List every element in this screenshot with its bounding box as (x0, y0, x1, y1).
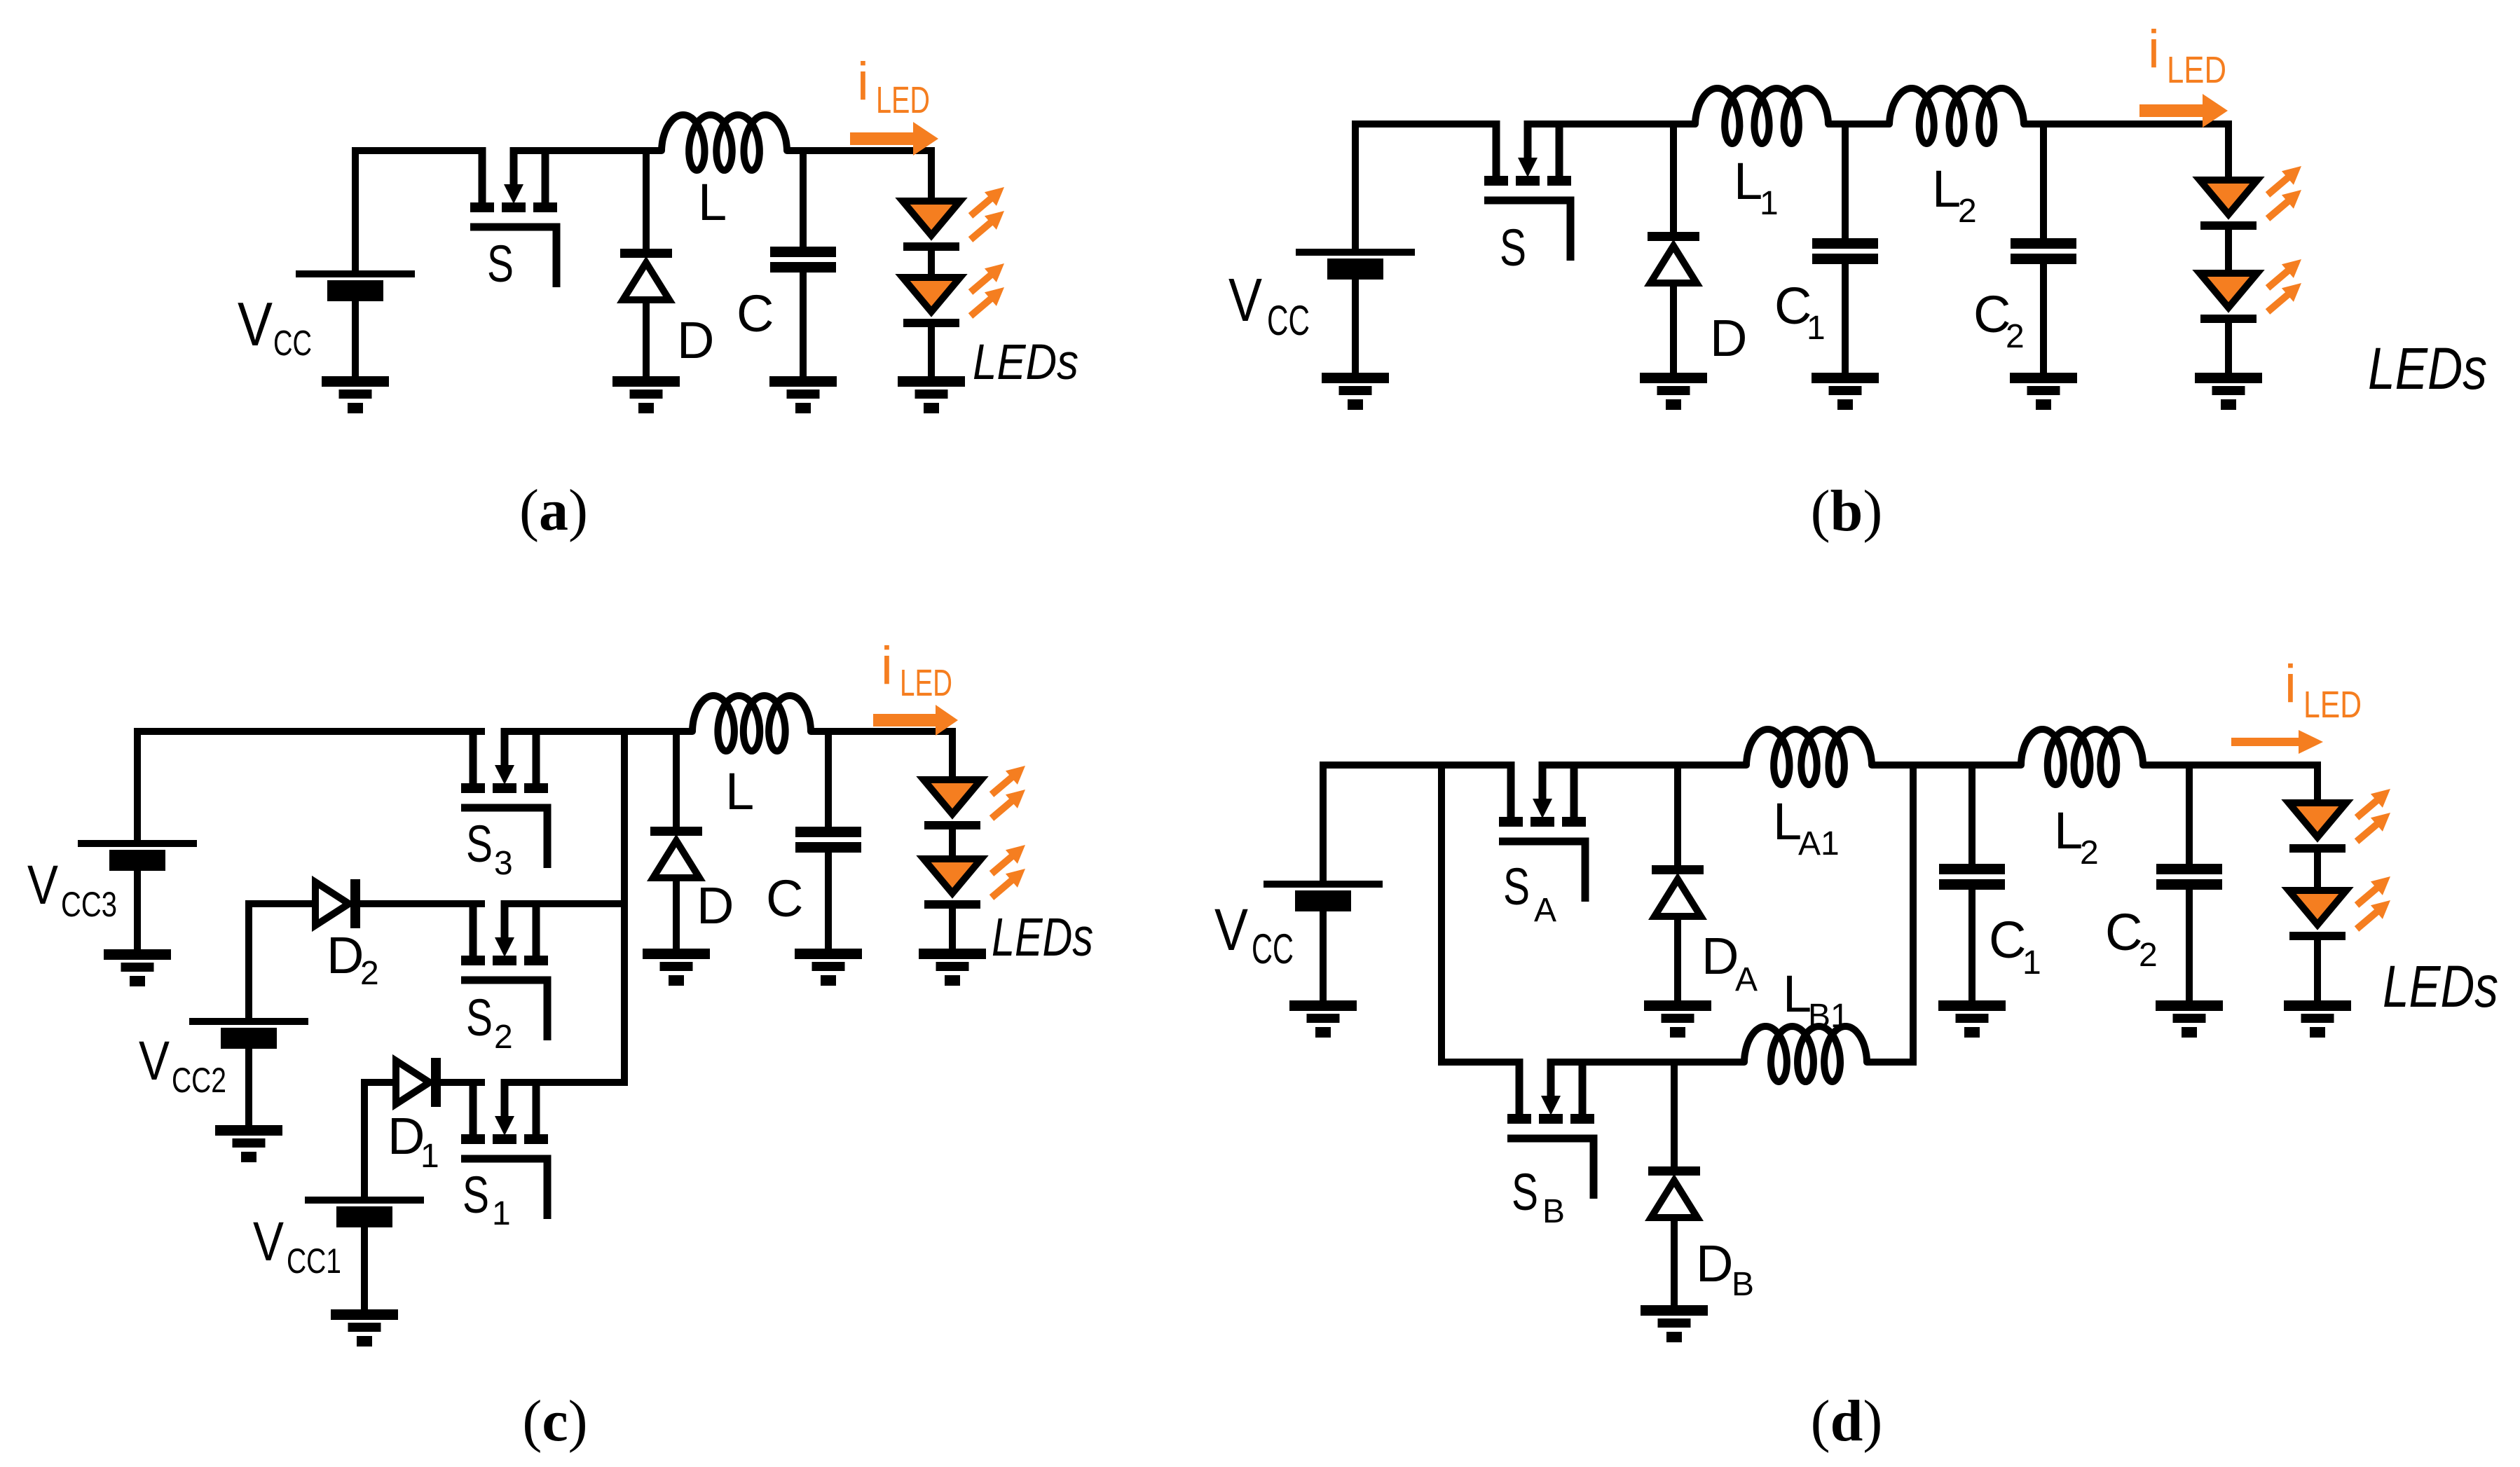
wire to LED string (panel b) (2225, 120, 2232, 180)
light rays of LED D2 (panel d) (2357, 876, 2390, 929)
current arrow iLED (panel a) (850, 122, 938, 156)
current arrow iLED (panel c) (873, 705, 958, 736)
label iLED (panel a) (857, 52, 930, 121)
wire inductor to LEDs (panel a) (787, 147, 935, 154)
ground (battery, panel b) (1322, 373, 1389, 410)
label LB1 (panel d) (1783, 965, 1849, 1035)
diode D (panel c) (650, 827, 702, 878)
label SA (panel d) (1503, 858, 1556, 929)
svg-text:B: B (1542, 1193, 1565, 1230)
svg-text:(b): (b) (1811, 478, 1883, 544)
label LA1 (panel d) (1773, 792, 1840, 862)
wire LA1 to L2 (panel d) (1872, 762, 2021, 769)
svg-text:C: C (2105, 903, 2142, 961)
wire battery negative to ground (panel a) (352, 301, 359, 380)
wire diode DB branch (panel d) (1671, 1062, 1678, 1168)
svg-text:V: V (1214, 897, 1248, 963)
svg-text:D: D (697, 876, 734, 935)
svg-text:2: 2 (360, 955, 379, 992)
svg-text:LEDs: LEDs (2383, 953, 2498, 1019)
label D1 (panel c) (388, 1107, 439, 1175)
label VCC1 (panel c) (253, 1210, 341, 1281)
light rays of LED D2 (panel c) (992, 845, 1025, 897)
LED D2 of string (panel d) (2289, 890, 2346, 940)
svg-text:LEDs: LEDs (2368, 336, 2487, 401)
wire C2 to ground (panel b) (2040, 263, 2047, 376)
svg-text:S: S (1512, 1163, 1538, 1221)
wire switch to inductor L1 (panel b) (1524, 120, 1695, 128)
wire D to ground (panel c) (673, 877, 680, 952)
svg-text:2: 2 (2139, 937, 2158, 974)
label D2 (panel c) (327, 926, 379, 992)
wire VCC to switch S (panel a) (355, 151, 485, 274)
label D (panel c) (697, 876, 734, 935)
wire to LED string (panel c) (949, 728, 956, 780)
diode DB (panel d) (1648, 1166, 1700, 1218)
wire VCC to rail (panel d) (1323, 765, 1514, 884)
svg-text:S: S (1500, 219, 1526, 277)
wire inductor to LEDs (panel c) (811, 728, 956, 735)
wire VCC1 negative to ground (panel c) (361, 1227, 368, 1313)
LED D1 of string (panel d) (2289, 803, 2346, 853)
LED D2 of string (panel a) (903, 277, 960, 327)
wire VCC2 to D2 anode (panel c) (249, 904, 317, 1021)
capacitor C1 (panel d) (1939, 864, 2005, 890)
ground (capacitor C1, panel b) (1812, 373, 1879, 410)
wire between LEDs (panel b) (2225, 228, 2232, 273)
ground (LED string, panel d) (2284, 1000, 2351, 1038)
svg-text:(d): (d) (1811, 1389, 1883, 1454)
svg-text:2: 2 (494, 1019, 513, 1056)
label S (panel a) (487, 235, 514, 293)
diode DA (panel d) (1652, 865, 1704, 916)
diode D (panel a) (620, 249, 672, 300)
svg-text:V: V (139, 1029, 170, 1091)
svg-text:LED: LED (876, 79, 930, 121)
label S1 (panel c) (463, 1166, 511, 1232)
ground (battery VCC3, panel c) (104, 949, 171, 986)
transistor SA (panel d) (1499, 762, 1586, 902)
wire LED string to ground (panel d) (2314, 938, 2321, 1004)
LED D2 of string (panel c) (924, 859, 981, 909)
wire VCC1 to D1 anode (panel c) (364, 1082, 397, 1200)
label C (panel c) (766, 869, 803, 928)
svg-text:3: 3 (494, 845, 513, 882)
inductor L (panel a) (662, 115, 787, 170)
svg-text:1: 1 (2022, 944, 2041, 982)
svg-text:2: 2 (2080, 834, 2099, 872)
wire between LEDs (panel d) (2314, 850, 2321, 890)
svg-text:L: L (2054, 801, 2083, 860)
svg-text:CC2: CC2 (172, 1061, 226, 1100)
wire SA source to LA1 (panel d) (1539, 762, 1746, 769)
transistor S (panel a) (470, 147, 557, 287)
battery VCC (panel a) (296, 270, 415, 301)
wire capacitor C branch (panel c) (825, 731, 832, 828)
svg-text:S: S (463, 1166, 489, 1224)
label iLED (panel d) (2285, 654, 2362, 726)
light rays of LED D1 (panel a) (971, 187, 1004, 240)
light rays of LED D2 (panel a) (971, 263, 1004, 316)
svg-text:LEDs: LEDs (973, 335, 1078, 390)
ground (LED string, panel a) (898, 376, 965, 413)
current arrow iLED (panel b) (2139, 94, 2228, 128)
svg-text:CC1: CC1 (287, 1241, 341, 1281)
LED D1 of string (panel b) (2200, 180, 2257, 230)
wire diode D branch (panel c) (673, 731, 680, 828)
transistor S2 (panel c) (461, 900, 548, 1040)
wire C to ground (panel c) (825, 851, 832, 952)
caption (d) (1811, 1389, 1883, 1454)
svg-text:2: 2 (1958, 193, 1977, 230)
svg-text:CC: CC (273, 323, 312, 363)
light rays of LED D1 (panel c) (992, 766, 1025, 818)
diode D2 (panel c) (315, 879, 360, 928)
inductor L1 (panel b) (1695, 88, 1828, 144)
wire C1 to ground (panel b) (1842, 263, 1849, 376)
svg-text:1: 1 (1760, 185, 1779, 222)
inductor L (panel c) (692, 696, 811, 751)
label DA (panel d) (1701, 927, 1758, 998)
ground (diode DB, panel d) (1641, 1305, 1708, 1342)
transistor SB (panel d) (1507, 1059, 1594, 1199)
label C2 (panel d) (2105, 903, 2158, 974)
capacitor C2 (panel b) (2011, 238, 2076, 264)
label L2 (panel b) (1932, 160, 1977, 230)
wire D2 cathode to S2 (panel c) (360, 900, 485, 907)
svg-text:L: L (1932, 160, 1961, 218)
capacitor C1 (panel b) (1812, 238, 1878, 264)
wire LED string to ground (panel b) (2225, 321, 2232, 376)
svg-text:i: i (881, 636, 893, 696)
ground (battery VCC2, panel c) (215, 1125, 282, 1162)
wire DB to ground (panel d) (1671, 1217, 1678, 1309)
wire capacitor to ground (panel a) (800, 271, 807, 380)
wire VCC3 to top bus (panel c) (137, 731, 485, 843)
wire L2 to LEDs (panel d) (2143, 762, 2321, 769)
inductor LA1 (panel d) (1746, 729, 1872, 785)
label D (panel b) (1710, 309, 1747, 367)
label VCC3 (panel c) (27, 853, 117, 924)
svg-text:B1: B1 (1808, 998, 1849, 1035)
ground (battery, panel d) (1289, 1000, 1357, 1038)
bus node to S1/S2 sources (panel c) (621, 728, 628, 1086)
label iLED (panel b) (2148, 20, 2226, 91)
capacitor C2 (panel d) (2156, 864, 2222, 890)
wire VCC3 negative to ground (panel c) (134, 871, 141, 953)
label C2 (panel b) (1973, 285, 2025, 355)
svg-text:(a): (a) (519, 478, 588, 543)
ground (battery VCC1, panel c) (331, 1309, 398, 1347)
svg-text:D: D (388, 1107, 425, 1165)
wire LB1 to link (panel d) (1867, 1059, 1917, 1066)
wire between LEDs (panel c) (949, 827, 956, 859)
capacitor C (panel a) (770, 247, 836, 273)
inductor L2 (panel d) (2021, 729, 2143, 785)
ground (diode D, panel c) (643, 949, 710, 986)
wire diode D branch (panel b) (1670, 124, 1677, 233)
svg-text:1: 1 (492, 1195, 511, 1232)
wire capacitor C1 branch (panel d) (1968, 765, 1975, 865)
svg-text:LED: LED (900, 662, 952, 704)
caption (a) (519, 478, 588, 543)
ground (diode D, panel b) (1640, 373, 1707, 410)
ground (LED string, panel b) (2195, 373, 2262, 410)
wire link verticals (panel d) (1910, 762, 1917, 1062)
wire capacitor C2 branch (panel d) (2186, 765, 2193, 865)
wire S2 source to bus (panel c) (501, 900, 628, 907)
svg-text:D: D (1701, 927, 1739, 985)
svg-text:LEDs: LEDs (992, 907, 1093, 967)
svg-text:C: C (766, 869, 803, 928)
ground (battery, panel a) (322, 376, 389, 413)
wire SB source to LB1 (panel d) (1547, 1059, 1744, 1066)
battery VCC3 (panel c) (78, 840, 197, 871)
ground (capacitor C1, panel d) (1938, 1000, 2006, 1038)
label C1 (panel b) (1774, 277, 1826, 347)
ground (capacitor C, panel c) (795, 949, 862, 986)
wire diode DA branch (panel d) (1674, 765, 1681, 867)
svg-text:C: C (1989, 911, 2026, 969)
svg-text:V: V (238, 289, 273, 359)
svg-text:L: L (1734, 152, 1762, 210)
svg-text:S: S (466, 989, 493, 1047)
wire battery negative to ground (panel b) (1352, 280, 1359, 376)
wire to LED string (panel d) (2314, 762, 2321, 803)
label VCC (panel d) (1214, 897, 1294, 972)
label DB (panel d) (1696, 1234, 1754, 1303)
label L1 (panel b) (1734, 152, 1779, 222)
svg-text:L: L (725, 762, 754, 820)
label iLED (panel c) (881, 636, 952, 704)
wire diode D branch (panel a) (643, 151, 650, 250)
wire LED string to ground (panel c) (949, 907, 956, 952)
wire between LEDs (panel a) (928, 249, 935, 277)
svg-text:D: D (677, 311, 714, 369)
svg-text:B: B (1732, 1266, 1754, 1303)
diode D1 (panel c) (396, 1058, 441, 1107)
svg-text:D: D (1710, 309, 1747, 367)
svg-text:L: L (1783, 965, 1812, 1023)
label L (panel c) (725, 762, 754, 820)
svg-text:CC: CC (1267, 297, 1310, 344)
inductor LB1 (panel d) (1744, 1026, 1867, 1082)
wire D1 cathode to S1 (panel c) (441, 1079, 485, 1086)
caption (c) (522, 1389, 587, 1454)
svg-text:2: 2 (2006, 318, 2025, 355)
battery VCC (panel b) (1296, 249, 1415, 280)
label VCC (panel a) (238, 289, 312, 363)
ground (LED string, panel c) (919, 949, 986, 986)
svg-text:i: i (857, 52, 869, 111)
svg-text:S: S (466, 815, 493, 873)
svg-text:A: A (1534, 892, 1556, 929)
wire phase B drop (panel d) (1442, 765, 1516, 1062)
svg-text:1: 1 (420, 1138, 439, 1175)
wire LED string to ground (panel a) (928, 325, 935, 380)
svg-text:i: i (2148, 20, 2160, 79)
light rays of LED D1 (panel d) (2357, 789, 2390, 841)
label L (panel a) (698, 173, 727, 231)
label LEDs (panel c) (992, 907, 1093, 967)
wire battery negative to ground (panel d) (1320, 911, 1327, 1004)
LED D1 of string (panel a) (903, 201, 960, 251)
wire C1 to ground (panel d) (1968, 888, 1975, 1004)
svg-text:CC: CC (1252, 925, 1294, 972)
svg-text:V: V (1228, 266, 1262, 334)
wire L1 to L2 (panel b) (1828, 120, 1889, 128)
svg-text:D: D (327, 926, 364, 984)
capacitor C (panel c) (795, 827, 861, 853)
wire capacitor C branch (panel a) (800, 151, 807, 248)
svg-text:C: C (737, 284, 774, 343)
caption (b) (1811, 478, 1883, 544)
label S (panel b) (1500, 219, 1526, 277)
label LEDs (panel d) (2383, 953, 2498, 1019)
svg-text:(c): (c) (522, 1389, 587, 1454)
svg-text:LED: LED (2303, 684, 2362, 726)
diode D (panel b) (1648, 232, 1699, 283)
ground (diode DA, panel d) (1644, 1000, 1711, 1038)
svg-text:D: D (1696, 1234, 1733, 1293)
wire switch to inductor (panel a) (510, 147, 662, 154)
transistor S1 (panel c) (461, 1079, 548, 1219)
label L2 (panel d) (2054, 801, 2099, 872)
wire capacitor C1 branch (panel b) (1842, 124, 1849, 240)
battery VCC (panel d) (1264, 881, 1383, 911)
svg-text:CC3: CC3 (61, 885, 117, 924)
label C (panel a) (737, 284, 774, 343)
light rays of LED D1 (panel b) (2268, 166, 2301, 219)
svg-text:A1: A1 (1798, 825, 1840, 862)
current arrow iLED (panel d) (2231, 730, 2323, 754)
label S2 (panel c) (466, 989, 513, 1056)
light rays of LED D2 (panel b) (2268, 259, 2301, 312)
svg-text:A: A (1735, 961, 1758, 998)
LED D1 of string (panel c) (924, 780, 981, 829)
wire to LED string (panel a) (928, 147, 935, 201)
wire VCC2 negative to ground (panel c) (245, 1049, 252, 1129)
label S3 (panel c) (466, 815, 513, 882)
svg-text:V: V (253, 1210, 284, 1272)
label LEDs (panel a) (973, 335, 1078, 390)
svg-text:S: S (487, 235, 514, 293)
svg-text:LED: LED (2167, 49, 2226, 91)
label LEDs (panel b) (2368, 336, 2487, 401)
label SB (panel d) (1512, 1163, 1565, 1230)
wire C2 to ground (panel d) (2186, 888, 2193, 1004)
wire VCC to switch S (panel b) (1355, 124, 1499, 252)
battery VCC1 (panel c) (305, 1197, 424, 1227)
label C1 (panel d) (1989, 911, 2041, 982)
label VCC (panel b) (1228, 266, 1310, 344)
svg-text:V: V (27, 853, 58, 916)
wire S3 source to node (panel c) (501, 728, 692, 735)
ground (capacitor C2, panel d) (2156, 1000, 2223, 1038)
LED D2 of string (panel b) (2200, 273, 2257, 323)
svg-text:S: S (1503, 858, 1530, 916)
svg-text:L: L (1773, 792, 1802, 850)
svg-text:i: i (2285, 654, 2296, 714)
svg-text:L: L (698, 173, 727, 231)
wire L2 to LEDs (panel b) (2024, 120, 2232, 128)
label D (panel a) (677, 311, 714, 369)
wire S1 source to bus (panel c) (501, 1079, 628, 1086)
svg-text:1: 1 (1807, 310, 1826, 347)
ground (capacitor C, panel a) (769, 376, 837, 413)
ground (diode D, panel a) (612, 376, 680, 413)
transistor S (panel b) (1484, 120, 1571, 261)
wire DA to ground (panel d) (1674, 916, 1681, 1004)
wire capacitor C2 branch (panel b) (2040, 124, 2047, 240)
transistor S3 (panel c) (461, 728, 548, 868)
battery VCC2 (panel c) (189, 1018, 308, 1049)
wire diode to ground (panel b) (1670, 282, 1677, 376)
inductor L2 (panel b) (1889, 88, 2024, 144)
ground (capacitor C2, panel b) (2010, 373, 2077, 410)
wire diode to ground (panel a) (643, 299, 650, 380)
label VCC2 (panel c) (139, 1029, 226, 1100)
